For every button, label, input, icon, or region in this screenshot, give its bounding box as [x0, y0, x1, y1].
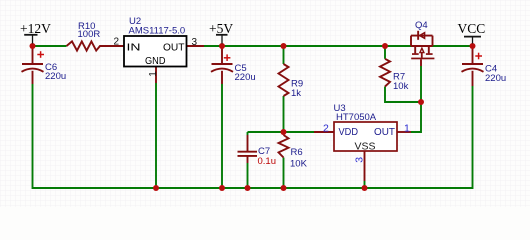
svg-text:VDD: VDD [339, 127, 359, 138]
svg-text:R6: R6 [291, 147, 303, 158]
svg-text:10K: 10K [290, 159, 308, 170]
svg-text:220u: 220u [235, 72, 256, 83]
svg-text:1: 1 [404, 123, 410, 135]
svg-text:Q4: Q4 [415, 20, 428, 31]
svg-text:OUT: OUT [374, 127, 395, 138]
svg-text:3: 3 [192, 37, 198, 48]
svg-text:100R: 100R [78, 29, 101, 40]
svg-text:10k: 10k [393, 81, 409, 92]
svg-text:HT7050A: HT7050A [336, 112, 377, 123]
svg-text:0.1u: 0.1u [258, 156, 277, 167]
svg-text:+5V: +5V [209, 21, 233, 36]
svg-text:2: 2 [323, 123, 329, 135]
svg-text:1k: 1k [291, 88, 301, 99]
svg-text:220u: 220u [45, 71, 66, 82]
svg-text:OUT: OUT [163, 43, 185, 54]
svg-text:VSS: VSS [355, 142, 376, 153]
svg-text:GND: GND [145, 56, 166, 67]
svg-text:+12V: +12V [20, 21, 51, 36]
svg-text:3: 3 [354, 157, 366, 163]
svg-text:AMS1117-5.0: AMS1117-5.0 [129, 26, 186, 37]
svg-text:1: 1 [148, 71, 159, 77]
svg-text:220u: 220u [485, 73, 506, 84]
svg-text:2: 2 [114, 37, 120, 48]
svg-text:VCC: VCC [458, 21, 486, 36]
svg-text:IN: IN [127, 43, 141, 54]
